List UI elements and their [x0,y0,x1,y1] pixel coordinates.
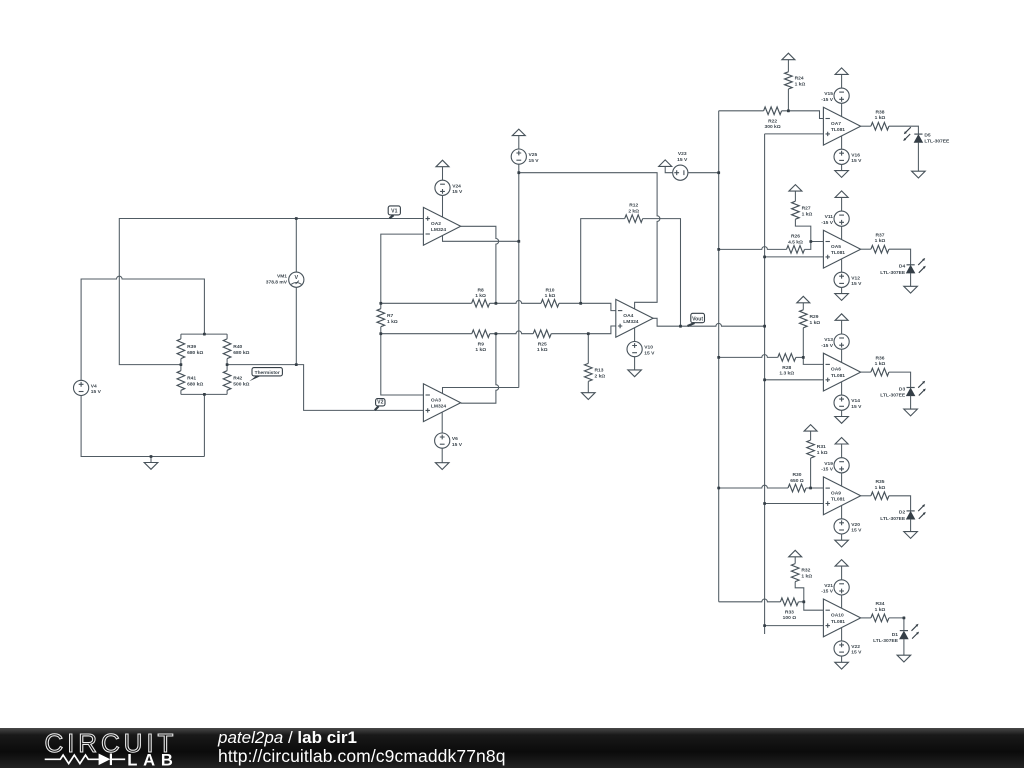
svg-text:TL081: TL081 [831,127,845,133]
wire junction at (588.3,333.7) [587,332,590,335]
svg-text:D4: D4 [899,264,906,270]
wire junction at (718.7,488.0) [717,487,720,490]
svg-text:VM1: VM1 [277,274,287,280]
callout Thermistor [249,376,261,381]
svg-text:V4: V4 [91,383,97,389]
wire junction at (903.9,617.9) [903,617,906,620]
supply arrow flag [789,550,802,557]
supply arrow flag [835,68,848,75]
resistor R22 300 k [764,107,782,115]
svg-text:15 V: 15 V [851,650,862,656]
resistor R26 4.5 k [787,246,805,254]
resistor R24 1 k [785,72,793,89]
svg-text:OA10: OA10 [831,613,844,619]
wire: V20 to ground [841,534,843,540]
resistor R9 1 k [472,330,490,338]
voltage source V6 15 V [435,433,450,448]
ground [835,294,849,301]
wire: R34 to LED D1 [889,618,904,631]
svg-text:1 kΩ: 1 kΩ [802,211,813,217]
svg-text:R9: R9 [478,341,485,347]
wire: R33 right lead to - node [798,601,803,603]
wire: R41 leads [180,365,182,395]
wire junction at (204.4,334.1) [203,333,206,336]
wire junction at (803.8,601.8) [802,600,805,603]
wire junction at (718.7,249.4) [717,248,720,251]
wire: OA4 output [653,318,765,326]
ground [144,463,158,470]
svg-text:1 kΩ: 1 kΩ [810,320,821,326]
wire: V25 rail to OA4 V+ drop (hops over R12) [519,173,660,309]
voltage source V15 -15 V [834,88,849,103]
svg-text:300 kΩ: 300 kΩ [765,124,781,130]
CircuitLab logo [0,728,210,768]
svg-text:LM324: LM324 [431,227,447,233]
wire: V11 flag stub [841,197,843,211]
svg-text:15 V: 15 V [851,404,862,410]
svg-text:R7: R7 [387,313,394,319]
svg-text:1 kΩ: 1 kΩ [817,450,828,456]
svg-text:R42: R42 [233,376,242,382]
wire junction at (788.4,110.8) [787,109,790,112]
svg-text:R12: R12 [629,203,638,209]
svg-text:-15 V: -15 V [821,589,833,595]
wire: V15 to OA7 V+ pin [841,103,843,116]
wire junction at (718.7,357.4) [717,356,720,359]
supply arrow flag [797,296,810,303]
wire: V19 to OA9 V+ pin [841,473,843,486]
wire: V15 flag stub [841,74,843,88]
svg-text:R35: R35 [876,479,885,485]
wire: R7 node down to OA3 - input [381,334,424,395]
wire: OA7 V- pin to V16 [841,136,843,150]
ground [897,655,911,662]
wire junction at (718.7,172.7) [717,171,720,174]
wire junction at (764.6,256.9) [763,256,766,259]
wire: Vout bus to OA5 + input [765,256,824,258]
svg-text:R27: R27 [802,205,811,211]
wire junction at (810.8,241.5) [809,240,812,243]
wire: R25 leads (hops over V25 bus) [496,331,533,334]
svg-text:R34: R34 [876,601,885,607]
wire junction at (810.6,488.0) [809,487,812,490]
wire: ladder bus (V23/ladder feed) [718,111,720,602]
svg-text:500 kΩ: 500 kΩ [233,382,249,388]
svg-text:1 kΩ: 1 kΩ [875,238,886,244]
svg-text:1 kΩ: 1 kΩ [875,361,886,367]
wire: V10 to ground [634,357,636,370]
url [218,746,506,767]
wire junction at (204.4,394.4) [203,393,206,396]
wire junction at (764.6,503.5) [763,502,766,505]
wire: R24 bottom lead [787,89,789,111]
supply arrow flag [782,53,795,60]
wire: V22 to ground [841,656,843,662]
svg-text:R33: R33 [785,609,794,615]
svg-text:R39: R39 [187,344,196,350]
svg-text:TL081: TL081 [831,619,845,625]
wire: OA2 - input feedback down to R8 node [381,234,424,303]
node V2 [376,399,385,406]
wire junction at (180.9,364.6) [180,363,183,366]
resistor R34 1 k&#937; [871,614,889,622]
svg-text:OA3: OA3 [431,397,441,403]
ground [835,540,849,547]
voltage source V4 15 V [74,380,89,395]
supply arrow flag [835,560,848,567]
wire: V21 flag stub [841,566,843,580]
wire: R28 left lead from bus (hops Vout bus) [719,355,778,358]
wire: R37 to LED D4 [889,249,911,265]
svg-text:V: V [294,275,298,281]
svg-text:R28: R28 [782,365,791,371]
svg-text:15 V: 15 V [91,389,102,395]
wire: R42 leads [226,365,228,395]
svg-text:1 kΩ: 1 kΩ [875,485,886,491]
voltage source V25 15 V [511,149,526,164]
svg-text:OA5: OA5 [831,244,841,250]
wire junction at (803.3,357.4) [802,356,805,359]
resistor R32 1 k [791,564,799,582]
svg-text:LTL-307EE: LTL-307EE [880,516,906,522]
svg-text:OA2: OA2 [431,221,441,227]
op-amp OA9 (TL081) [823,477,860,515]
svg-text:15 V: 15 V [452,442,463,448]
svg-text:100 Ω: 100 Ω [783,615,797,621]
svg-text:-15 V: -15 V [821,343,833,349]
resistor R41 680 k [177,371,185,391]
LED D5 (LTL-307EE) [914,133,922,135]
wire: R13 bottom lead to ground [587,381,589,392]
resistor R42 500 k (thermistor) [223,371,231,391]
wire: R13 top lead from OA4 + node [587,334,589,364]
wire junction at (495.9,303.3) [495,302,498,305]
resistor R31 1 k [807,440,815,458]
wire junction at (764.6,326.2) [763,325,766,328]
resistor R30 650 ohm [788,484,806,492]
wire: OA10 output to R34 [861,617,871,619]
svg-text:1.3 kΩ: 1.3 kΩ [779,371,794,377]
wire: R31 bottom lead to - node [810,458,812,488]
wire: V23 - terminal to ladder bus [688,172,719,174]
resistor R35 1 k&#937; [871,492,889,500]
voltage source V21 -15 V [834,580,849,595]
resistor R27 1 k [792,201,800,219]
wire: R26 left lead from bus (hops Vout bus) [719,247,787,250]
resistor R8 1 k [472,300,490,308]
svg-text:LTL-307EE: LTL-307EE [880,270,906,276]
svg-text:V21: V21 [824,583,833,589]
LED D4 (LTL-307EE) [907,264,915,266]
voltage source V22 15 V [834,641,849,656]
svg-text:1 kΩ: 1 kΩ [875,115,886,121]
wire junction at (380.8,333.7) [379,332,382,335]
voltage source V16 15 V [834,149,849,164]
wire: OA6 V- pin to V14 [841,382,843,396]
svg-text:LM324: LM324 [431,404,447,410]
supply arrow flag [789,185,802,192]
svg-text:R22: R22 [768,118,777,124]
svg-text:1 kΩ: 1 kΩ [387,319,398,325]
wire: R9 leads [381,333,496,335]
svg-text:OA7: OA7 [831,121,841,127]
resistor R28 1.3 k [778,354,796,362]
svg-text:2 kΩ: 2 kΩ [595,374,606,380]
wire: OA7 output to R38 [861,125,871,127]
svg-text:R13: R13 [595,368,604,374]
svg-text:OA4: OA4 [623,313,633,319]
svg-text:1 kΩ: 1 kΩ [537,347,548,353]
wire: V19 flag stub [841,444,843,458]
ground [435,463,449,470]
svg-text:1 kΩ: 1 kΩ [875,607,886,613]
op-amp OA6 (TL081) [823,353,860,391]
wire: LED D5 to ground [917,142,919,171]
svg-text:1 kΩ: 1 kΩ [475,347,486,353]
wire: OA3 V+ pin to V25 bus (hops over OA3 output) [443,388,519,394]
wire junction at (764.6,625.6) [763,624,766,627]
wire: R29 down through node to OA6 - input [803,328,823,365]
wire: V16 to ground [841,164,843,170]
wire: V23 + terminal to supply arrow [665,166,673,172]
svg-text:R25: R25 [538,341,547,347]
svg-text:R40: R40 [233,344,242,350]
wire: V13 to OA6 V+ pin [841,349,843,362]
svg-text:R38: R38 [876,109,885,115]
svg-text:1 kΩ: 1 kΩ [801,574,812,580]
wire: R30 left lead from bus (hops Vout bus) [719,485,788,488]
wire: OA2 output down to R8/R10 node (hops over OA2 V- wire) [461,226,499,303]
wire: R22 left lead from bus [719,110,764,112]
wire: R33 left lead from bus (hops Vout bus) [719,599,781,602]
voltage source V14 15 V [834,395,849,410]
wire: OA9 output to R35 [861,495,871,497]
title [218,728,357,748]
resistor R33 100 ohm [780,598,798,606]
wire junction at (518.8,172.7) [517,171,520,174]
wire: R7 leads (vertical) [380,303,382,333]
op-amp OA2 (LM324) [423,207,460,245]
wire junction at (680.5,326.2) [679,325,682,328]
wire: Vout bus to OA10 + input [765,625,824,627]
svg-text:LTL-307EE: LTL-307EE [873,638,899,644]
wire: OA6 output to R36 [861,371,871,373]
svg-text:V15: V15 [824,91,833,97]
svg-text:15 V: 15 V [851,281,862,287]
ground [904,286,918,293]
wire: V24 flag stub [442,167,444,181]
svg-text:2 kΩ: 2 kΩ [628,209,639,215]
svg-text:LTL-307EE: LTL-307EE [880,393,906,399]
resistor R7 1 k [377,309,385,327]
wire: R31 top stub to flag [810,431,812,440]
wire: R30 right lead to OA9 - input [806,487,823,489]
svg-text:D5: D5 [924,132,931,138]
svg-text:V12: V12 [851,275,860,281]
svg-text:650 Ω: 650 Ω [790,478,804,484]
svg-text:V1: V1 [391,209,397,215]
wire: R10 leads (hops over V25 bus) [496,301,541,304]
svg-text:LTL-307EE: LTL-307EE [924,139,950,145]
svg-text:V22: V22 [851,644,860,650]
op-amp OA3 (LM324) [423,384,460,422]
svg-text:D3: D3 [899,386,906,392]
svg-text:D1: D1 [892,632,899,638]
ground [904,532,918,539]
supply arrow flag [804,425,817,432]
node Vout [691,313,705,322]
voltage source V11 -15 V [834,211,849,226]
svg-text:TL081: TL081 [831,250,845,256]
wire: R35 to LED D2 [889,496,911,511]
resistor R40 680 k [223,339,231,359]
wire: R8 leads [381,302,496,304]
wire: V25 flag stub [518,136,520,149]
resistor R38 1 k&#937; [871,122,889,130]
svg-text:LAB: LAB [127,750,179,768]
supply arrow flag [659,160,672,167]
svg-text:V2: V2 [377,400,383,406]
wire: V6 to ground [441,448,443,463]
wire: R12 feedback left leg down to OA4 - node [581,219,625,304]
wire: V2 net from bridge right-mid node to OA3 + input [227,365,423,411]
wire: R27 top stub to flag [794,191,796,201]
wire: R40 leads [226,334,228,365]
wire: OA5 V- pin to V12 [841,259,843,273]
svg-text:R37: R37 [876,232,885,238]
svg-text:680 kΩ: 680 kΩ [233,350,249,356]
supply arrow flag [835,191,848,198]
svg-text:R29: R29 [810,314,819,320]
svg-text:OA6: OA6 [831,367,841,373]
ground [912,171,926,178]
voltmeter VM1 378.8 mV [289,272,304,287]
svg-text:1 kΩ: 1 kΩ [545,293,556,299]
svg-text:15 V: 15 V [677,157,688,163]
supply arrow flag [512,129,525,136]
resistor R10 1 k [541,300,559,308]
resistor R12 2 k [625,215,643,223]
svg-text:15 V: 15 V [529,158,540,164]
wire junction at (296.3,364.6) [295,363,298,366]
wire: V11 to OA5 V+ pin [841,226,843,239]
svg-text:1 kΩ: 1 kΩ [795,82,806,88]
svg-text:15 V: 15 V [644,350,655,356]
svg-text:15 V: 15 V [452,189,463,195]
wire: bridge bottom rail and drop [181,394,227,456]
svg-text:R31: R31 [817,444,826,450]
wire: LED D2 to ground [910,519,912,532]
svg-text:TL081: TL081 [831,373,845,379]
svg-text:15 V: 15 V [851,528,862,534]
svg-text:V13: V13 [824,337,833,343]
svg-text:R30: R30 [793,472,802,478]
wire: V14 to ground [841,410,843,416]
svg-text:680 kΩ: 680 kΩ [187,382,203,388]
svg-text:15 V: 15 V [851,158,862,164]
svg-text:R41: R41 [187,376,196,382]
svg-text:V14: V14 [851,398,860,404]
resistor R29 1 k [800,310,808,328]
wire junction at (151,456.5) [150,455,153,458]
op-amp OA4 (LM324) [616,299,653,337]
wire: R12 right leg down to OA4 output [643,219,681,327]
svg-text:V19: V19 [824,461,833,467]
svg-text:-15 V: -15 V [821,97,833,103]
voltage source V10 15 V [627,342,642,357]
wire: Vout bus to OA6 + input [765,379,824,381]
svg-text:R24: R24 [795,76,804,82]
wire: R24 top stub to flag [787,60,789,72]
wire: Vout bus to OA9 + input [765,503,824,505]
svg-text:R26: R26 [791,233,800,239]
ground [628,370,642,377]
wire: R36 to LED D3 [889,372,911,387]
ground [835,417,849,424]
wire junction at (495.9,333.7) [495,332,498,335]
LED D3 (LTL-307EE) [907,387,915,389]
svg-text:-15 V: -15 V [821,220,833,226]
svg-text:V10: V10 [644,345,653,351]
wire junction at (296.3,218.5) [295,217,298,220]
wire: OA4 V- pin to V10 [634,328,636,342]
wire: R38 to LED D5 [889,126,919,134]
wire: R28 right lead to - node [796,356,804,358]
resistor R36 1 k&#937; [871,368,889,376]
svg-text:D2: D2 [899,510,906,516]
svg-text:4.5 kΩ: 4.5 kΩ [788,239,803,245]
wire: R32 top stub to flag [794,557,796,564]
svg-text:V11: V11 [825,214,834,220]
svg-text:R10: R10 [546,287,555,293]
svg-text:-15 V: -15 V [821,467,833,473]
wire junction at (227.1,364.6) [226,363,229,366]
wire: V13 flag stub [841,320,843,334]
voltage source V23 15 V (horizontal) [673,165,688,180]
supply arrow flag [835,314,848,321]
op-amp OA7 (TL081) [823,107,860,145]
svg-text:V16: V16 [851,152,860,158]
wire: R32 jog down to - node and OA10 - input [795,582,823,611]
wire: OA2 V+ pin from V24 [442,195,444,217]
wire: R27 bottom jog to - node [795,219,810,241]
wire: OA9 V- pin to V20 [841,505,843,519]
wire: LED D3 to ground [910,396,912,409]
LED D1 (LTL-307EE) [900,630,908,632]
svg-text:680 kΩ: 680 kΩ [187,350,203,356]
supply arrow flag [835,438,848,445]
ground [835,662,849,669]
svg-text:Thermistor: Thermistor [255,370,280,376]
LED D2 (LTL-307EE) [907,510,915,512]
op-amp OA10 (TL081) [823,599,860,637]
svg-text:V25: V25 [529,152,538,158]
voltage source V12 15 V [834,272,849,287]
ground [582,393,596,400]
supply arrow flag [436,160,449,167]
voltage source V24 15 V [435,180,450,195]
wire: LED D4 to ground [910,273,912,286]
svg-text:1 kΩ: 1 kΩ [475,293,486,299]
wire: Vout bus to OA7 + input [765,133,824,135]
wire: OA3 output up to R9/R25 node (hops over OA3 V+ wire) [461,334,499,404]
wire: LED D1 to ground [903,639,905,655]
wire: R22 to OA7 - input with R24 tap [782,111,824,119]
wire junction at (518.8,241.3) [517,240,520,243]
svg-text:R8: R8 [477,287,484,293]
resistor R25 1 k [533,330,551,338]
op-amp OA5 (TL081) [823,230,860,268]
